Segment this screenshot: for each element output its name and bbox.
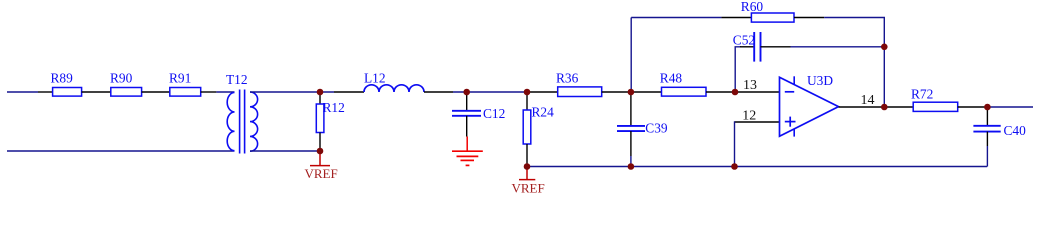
node C39 bottom [628, 163, 635, 170]
resistor R60 [741, 0, 794, 22]
svg-text:R89: R89 [51, 71, 74, 86]
resistor R24 [523, 92, 554, 167]
node R24 top [524, 89, 531, 96]
inductor L12 [334, 71, 453, 93]
svg-text:VREF: VREF [305, 166, 338, 181]
svg-text:R91: R91 [169, 71, 191, 86]
wire top-left primary [7, 91, 53, 93]
svg-text:14: 14 [861, 93, 875, 108]
node C39 top [628, 89, 635, 96]
wire bottom-left primary [7, 150, 235, 152]
wire C52 to feedback right [791, 46, 885, 48]
node R12 top [317, 89, 324, 96]
node C52/R60 right [881, 44, 888, 51]
svg-text:C39: C39 [645, 120, 668, 135]
svg-text:R90: R90 [110, 71, 133, 86]
ground earth [452, 137, 483, 166]
node pin13 [732, 89, 739, 96]
power VREF at R12 [305, 151, 338, 181]
node R12 bottom [317, 148, 324, 155]
svg-text:R72: R72 [911, 87, 933, 102]
op-amp U3D [780, 73, 839, 137]
node C40 top [984, 104, 991, 111]
wire C52 left vertical [735, 47, 741, 92]
capacitor C52 [733, 32, 791, 62]
svg-text:C40: C40 [1004, 123, 1027, 138]
capacitor C12 [452, 92, 505, 137]
wire R60 top right [794, 18, 884, 108]
wire R89-R90 [82, 91, 111, 93]
svg-text:VREF: VREF [512, 181, 545, 196]
wire secondary bottom [250, 150, 320, 152]
svg-text:R12: R12 [323, 100, 345, 115]
wire output stub [839, 106, 885, 108]
transformer T12 [226, 72, 258, 154]
svg-text:C52: C52 [733, 32, 755, 47]
svg-text:U3D: U3D [807, 73, 833, 88]
svg-text:R60: R60 [741, 0, 764, 14]
svg-text:L12: L12 [364, 71, 386, 86]
resistor R89 [51, 71, 82, 97]
capacitor C40 [973, 107, 1026, 146]
node R24 bottom [524, 163, 531, 170]
resistor R72 [884, 87, 987, 112]
svg-text:12: 12 [742, 109, 756, 124]
wire bottom rail [527, 146, 987, 167]
wire L12 to R36 [453, 91, 530, 93]
node pin12 bottom [731, 163, 738, 170]
resistor R12 [316, 92, 345, 151]
wire pin12 L [735, 121, 780, 123]
wire R60 top left [631, 17, 751, 19]
node C12 top [463, 89, 470, 96]
resistor R91 [169, 71, 201, 97]
svg-text:13: 13 [743, 78, 757, 93]
wire feedback left vertical [630, 18, 632, 93]
svg-text:C12: C12 [483, 106, 505, 121]
capacitor C39 [617, 92, 668, 167]
svg-text:R24: R24 [532, 105, 555, 120]
svg-text:T12: T12 [226, 72, 248, 87]
wire R90-R91 [142, 91, 170, 93]
resistor R36 [528, 71, 632, 97]
wire secondary top [250, 91, 334, 93]
wire output right [987, 106, 1033, 108]
power VREF at R24 [512, 167, 545, 196]
resistor R48 [630, 71, 779, 97]
svg-text:R36: R36 [556, 71, 579, 86]
wire R91 to T12 [201, 91, 235, 93]
svg-text:R48: R48 [660, 71, 683, 86]
resistor R90 [110, 71, 142, 97]
node output [881, 104, 888, 111]
